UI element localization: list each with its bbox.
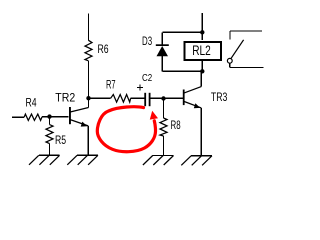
svg-text:R7: R7: [106, 78, 116, 92]
svg-text:C2: C2: [142, 72, 152, 84]
svg-text:TR2: TR2: [55, 90, 75, 104]
svg-text:R8: R8: [171, 118, 181, 132]
svg-text:RL2: RL2: [192, 42, 211, 58]
svg-text:TR3: TR3: [211, 90, 228, 104]
svg-text:R5: R5: [55, 133, 66, 147]
svg-text:D3: D3: [142, 34, 152, 48]
svg-text:R6: R6: [98, 42, 109, 56]
svg-text:R4: R4: [26, 96, 37, 110]
